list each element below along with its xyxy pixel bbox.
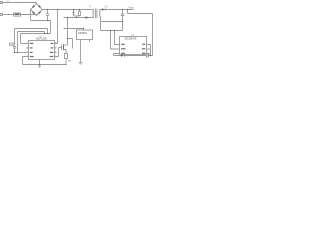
pin 3 wire <box>15 52 29 54</box>
capacitor C5 output <box>121 10 124 22</box>
svg-text:T1: T1 <box>89 5 92 8</box>
svg-text:Rs: Rs <box>68 61 72 63</box>
wire clamp bottom <box>74 15 80 17</box>
routing wire loop 1 <box>15 29 48 47</box>
svg-text:C7: C7 <box>7 1 11 4</box>
svg-text:MC33341P: MC33341P <box>125 38 137 41</box>
svg-text:3: 3 <box>27 51 28 53</box>
wire opto pin stub <box>89 40 91 43</box>
label pin Drv <box>50 56 54 57</box>
svg-text:6: 6 <box>55 51 56 53</box>
routing wire loop 2 <box>18 32 45 53</box>
wire gnd pin 4 <box>39 60 41 65</box>
wire bottom AC line <box>3 14 14 16</box>
wire fuse to bridge <box>21 15 37 16</box>
svg-text:+: + <box>44 10 46 13</box>
label pin Adj <box>30 43 33 44</box>
U3 right stubs <box>147 45 151 56</box>
pin 1 wire <box>21 43 29 45</box>
routing wire loop 3 <box>21 34 51 44</box>
diode blob bridge top-right <box>38 5 41 8</box>
ground opto <box>79 63 83 64</box>
IC U1 box <box>29 41 55 60</box>
wire opto emitter <box>80 40 82 63</box>
capacitor C1 bulk <box>46 10 49 21</box>
label U3 pin row2 right <box>142 48 145 49</box>
connector J1 pin 1 <box>1 2 3 4</box>
diode D4 clamp <box>73 10 75 16</box>
diode blob bridge bottom-right <box>38 11 41 14</box>
label U3 pin row1 right <box>142 44 145 45</box>
wire to U3 pin A <box>115 31 121 45</box>
label U3 pin row1 left <box>121 44 125 45</box>
label pin Gnd <box>30 56 34 57</box>
svg-text:1: 1 <box>27 42 28 44</box>
svg-text:NCP1200: NCP1200 <box>36 38 47 41</box>
resistor R2 clamp <box>79 10 81 12</box>
diode D2 body <box>102 8 105 10</box>
IC U3 box <box>120 37 147 55</box>
diode blob bridge bottom-left <box>32 11 35 14</box>
junction dots <box>47 9 48 10</box>
wire drain tap <box>68 39 73 49</box>
arrow primary current <box>86 16 89 18</box>
connector J1 pin 2 <box>1 14 3 16</box>
svg-text:7: 7 <box>55 47 56 49</box>
wire HV pin feed <box>55 10 58 44</box>
transformer T1 core <box>96 9 97 18</box>
label pin Vcc <box>50 52 53 53</box>
label U3 pin row3 right <box>142 53 145 54</box>
pin 4 wire <box>23 57 29 65</box>
diode D4 clamp body <box>72 12 74 15</box>
wire sense bus <box>101 30 123 32</box>
pin 2 wire <box>26 47 29 49</box>
pin 7 stub <box>55 47 57 49</box>
wire opto feed <box>64 29 84 31</box>
label U3 pin row2 left <box>121 48 125 49</box>
wire output to feedback <box>128 10 153 56</box>
transformer T1 secondary <box>100 10 101 17</box>
transistor Q1 <box>61 45 63 50</box>
wire HV rail <box>43 9 94 11</box>
resistor R3 sense <box>65 54 68 59</box>
diode blob bridge top-left <box>32 5 35 8</box>
wire secondary ground <box>101 17 123 31</box>
pin 6 stub <box>55 52 57 54</box>
label pin NC <box>51 47 54 48</box>
label pin CS <box>30 52 33 53</box>
label pin HV <box>51 43 54 44</box>
wire top AC line <box>3 3 37 4</box>
capacitor C2 <box>13 47 16 53</box>
label pin FB <box>30 47 33 48</box>
pin 8 stub <box>55 43 58 45</box>
battery B1 <box>145 53 147 58</box>
label U3 pin row3 left <box>121 53 125 54</box>
wire secondary output <box>100 9 134 11</box>
diode D3 body <box>121 54 124 57</box>
label F1 value <box>15 14 20 16</box>
pin 5 wire to gate <box>55 48 62 57</box>
wire battery loop <box>114 55 153 57</box>
wire ground rail <box>23 64 68 66</box>
svg-text:SFH615: SFH615 <box>78 32 87 35</box>
optocoupler U2 box <box>77 30 93 40</box>
svg-text:Vout: Vout <box>129 6 134 10</box>
svg-text:5: 5 <box>55 55 56 57</box>
wire DC minus from bridge <box>31 10 51 34</box>
svg-text:D2: D2 <box>105 6 109 9</box>
bridge rectifier D1 <box>31 4 43 16</box>
ground symbol <box>38 65 41 68</box>
fuse F1 <box>14 13 21 16</box>
svg-text:2: 2 <box>27 47 28 49</box>
svg-text:8: 8 <box>55 42 56 44</box>
U3 pin bottom wire <box>114 54 121 56</box>
svg-text:4: 4 <box>27 55 28 57</box>
wire drain node <box>64 17 94 45</box>
resistor R1 <box>10 43 14 45</box>
wire to U3 pin B <box>111 31 121 50</box>
transformer T1 primary <box>92 10 95 17</box>
